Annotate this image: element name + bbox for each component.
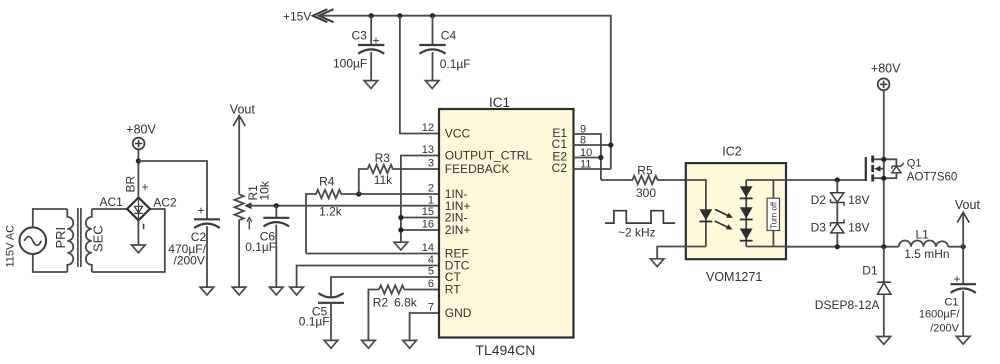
svg-text:FEEDBACK: FEEDBACK [445,162,510,176]
waveform symbol ~2 kHz [605,211,675,240]
wire R1 wiper to pin 1 (1IN+) [248,205,439,207]
svg-text:/200V: /200V [174,254,205,268]
node Vout (right) [955,198,981,247]
svg-text:L1: L1 [916,227,930,241]
wire pin 9 E1 to emitter bus [574,134,601,180]
transformer core [78,208,81,267]
wire secondary bottom to bridge AC2 [92,209,165,272]
ground (D1) [877,337,891,345]
wire pin 13 OUTPUT_CTRL to ground chain [401,156,439,243]
ground (R2) [362,340,376,348]
wire pin 16 2IN+ stub [401,229,439,231]
svg-text:18V: 18V [848,220,869,234]
wire +80V to bridge top [137,149,139,197]
svg-text:115V AC: 115V AC [5,225,17,268]
svg-text:~2 kHz: ~2 kHz [618,226,656,240]
svg-text:1.2k: 1.2k [319,204,343,218]
svg-text:0.1µF: 0.1µF [440,57,471,71]
inductor L1 1.5 mHn [899,227,950,260]
ground (C2) [200,287,214,295]
AC source 115V AC [5,225,47,268]
resistor R3 11k [359,151,439,194]
zener D2 18V [811,180,870,223]
svg-text:VOM1271: VOM1271 [706,270,762,284]
capacitor C4 0.1uF [419,16,470,81]
svg-text:D1: D1 [862,264,878,278]
bridge rectifier BR [124,175,150,229]
svg-text:C2: C2 [552,161,568,175]
svg-text:R3: R3 [375,151,391,165]
svg-text:GND: GND [445,306,472,320]
svg-text:+80V: +80V [126,123,156,137]
svg-text:Vout: Vout [955,198,981,212]
wire source rail (IC2 bottom out to L1/C1) [786,246,963,248]
svg-text:VCC: VCC [445,127,471,141]
svg-text:4: 4 [428,254,434,266]
svg-text:BR: BR [124,175,138,192]
resistor R4 1.2k [306,175,439,254]
svg-text:SEC: SEC [91,225,106,252]
svg-text:Vout: Vout [230,103,256,117]
ground (pins 15/16) [394,242,408,250]
ground (C1) [956,336,970,344]
transformer secondary winding SEC [86,209,106,272]
svg-text:Q1: Q1 [907,158,922,170]
wire IC2 inner top and bottom rails [746,180,786,247]
svg-text:C4: C4 [441,29,457,43]
svg-text:R5: R5 [637,163,653,177]
capacitor C3 100uF [333,16,384,81]
wire pin 15 2IN- stub [401,217,439,219]
svg-text:IC2: IC2 [722,145,742,159]
photodiode stack inside IC2 [740,180,753,247]
svg-text:3: 3 [428,158,434,170]
svg-text:300: 300 [636,186,656,200]
ground (R1) [232,287,246,295]
transformer primary winding PRI [53,209,73,272]
ground (C3) [364,81,378,89]
svg-text:+: + [198,203,205,217]
resistor R5 300 [601,163,686,200]
wire pin 11 C2 stub [574,168,611,170]
power +15V arrow symbol [283,9,334,23]
svg-text:OUTPUT_CTRL: OUTPUT_CTRL [445,149,533,163]
svg-text:18V: 18V [848,193,869,207]
svg-text:/200V: /200V [930,322,959,334]
svg-text:AC2: AC2 [153,196,177,210]
light emission arrows [715,209,733,229]
turn-off circuit block [767,180,779,247]
node Vout (left) [230,103,256,195]
transistor Q1 AOT7S60 [866,156,958,184]
PWM controller IC1 TL494CN body [439,95,574,358]
wire pin 14 REF [306,253,439,255]
svg-text:PRI: PRI [53,227,68,249]
svg-text:+: + [954,272,961,286]
svg-text:100µF: 100µF [333,57,367,71]
wire AC source to primary [33,209,68,272]
svg-text:D3: D3 [811,220,827,234]
svg-text:R2: R2 [373,296,389,310]
svg-text:12: 12 [422,122,434,134]
node junction pin 15 [398,215,403,220]
node junction Q1 source [881,244,886,249]
svg-text:+80V: +80V [871,62,901,76]
resistor R2 6.8k [368,285,439,340]
svg-text:IC1: IC1 [489,95,510,110]
ground (pin 7) [403,340,417,348]
capacitor C6 0.1uF [245,206,289,287]
node junction at +80V branch [136,158,141,163]
ground (bridge) [132,245,146,253]
svg-text:AC1: AC1 [100,195,124,209]
ground (IC2 input) [650,259,664,267]
svg-text:5: 5 [428,266,434,278]
wire VCC branch to pin 12 [400,16,439,134]
node junction pin 16 [398,227,403,232]
svg-text:1: 1 [428,195,434,207]
LED inside IC2 [686,180,713,247]
wire gate drive (IC2 top out to Q1 gate) [786,179,866,181]
svg-text:C1: C1 [944,296,958,308]
svg-text:11k: 11k [374,173,393,187]
svg-text:Turn off: Turn off [769,201,778,229]
wire bridge bottom to ground [137,220,139,245]
ground (DTC) [290,287,304,295]
svg-text:DSEP8-12A: DSEP8-12A [815,298,880,312]
node junction L1/C1/Vout [961,244,966,249]
svg-text:RT: RT [445,283,461,297]
node junction D3 bottom [835,244,840,249]
svg-text:+: + [142,180,149,194]
node junction wiper/C6 [274,203,279,208]
svg-text:6: 6 [428,278,434,290]
power +80V (left) [126,123,156,150]
node junction R4/R3 at pin 2 [356,191,361,196]
capacitor C1 1600uF/200V [919,247,976,337]
capacitor C2 470uF/200V [168,203,220,287]
potentiometer R1 10k [235,180,272,287]
svg-text:6.8k: 6.8k [394,296,418,310]
optocoupler IC2 VOM1271 body [686,145,786,284]
svg-text:1600µF/: 1600µF/ [919,309,961,321]
wire secondary top to bridge AC1 [92,208,127,210]
power +80V (right) [871,62,901,91]
svg-text:15: 15 [422,206,434,218]
svg-text:1.5 mHn: 1.5 mHn [904,247,949,261]
ground (C5) [324,340,338,348]
node junction D2 top [835,177,840,182]
svg-text:0.1µF: 0.1µF [299,314,330,328]
svg-text:0.1µF: 0.1µF [245,240,276,254]
svg-text:7: 7 [428,302,434,314]
wire branch to C2 [138,161,207,219]
wire pin 7 GND to ground [410,313,439,340]
ground (C4) [425,81,439,89]
svg-text:2: 2 [428,183,434,195]
svg-text:+: + [373,33,380,47]
wire LED cathode to ground [657,247,706,259]
svg-text:+15V: +15V [283,10,311,24]
wire pin 10 E2 stub [574,157,601,159]
node on rail at VCC branch [397,13,402,18]
capacitor C5 0.1uF [299,277,439,340]
diode D1 DSEP8-12A [815,247,891,337]
wire +15V rail [320,16,611,169]
svg-text:R4: R4 [319,175,335,189]
svg-text:TL494CN: TL494CN [475,342,535,358]
node junction E2 [598,155,603,160]
svg-text:2IN+: 2IN+ [445,223,471,237]
zener D3 18V [811,219,870,246]
ground (C6) [270,287,284,295]
wire pin 8 C1 stub [574,144,611,146]
svg-text:10k: 10k [258,180,272,200]
wire pin 4 DTC to ground [297,266,439,288]
svg-text:13: 13 [422,144,434,156]
svg-text:D2: D2 [811,193,827,207]
svg-text:AOT7S60: AOT7S60 [907,171,958,183]
svg-text:16: 16 [422,219,434,231]
wire +80V to Q1 drain and source run [883,90,885,247]
node junction C1 on +15V drop [608,142,613,147]
svg-text:14: 14 [422,242,434,254]
svg-text:C3: C3 [352,29,368,43]
node on rail at C3 [369,13,374,18]
node on rail at C4 [430,13,435,18]
